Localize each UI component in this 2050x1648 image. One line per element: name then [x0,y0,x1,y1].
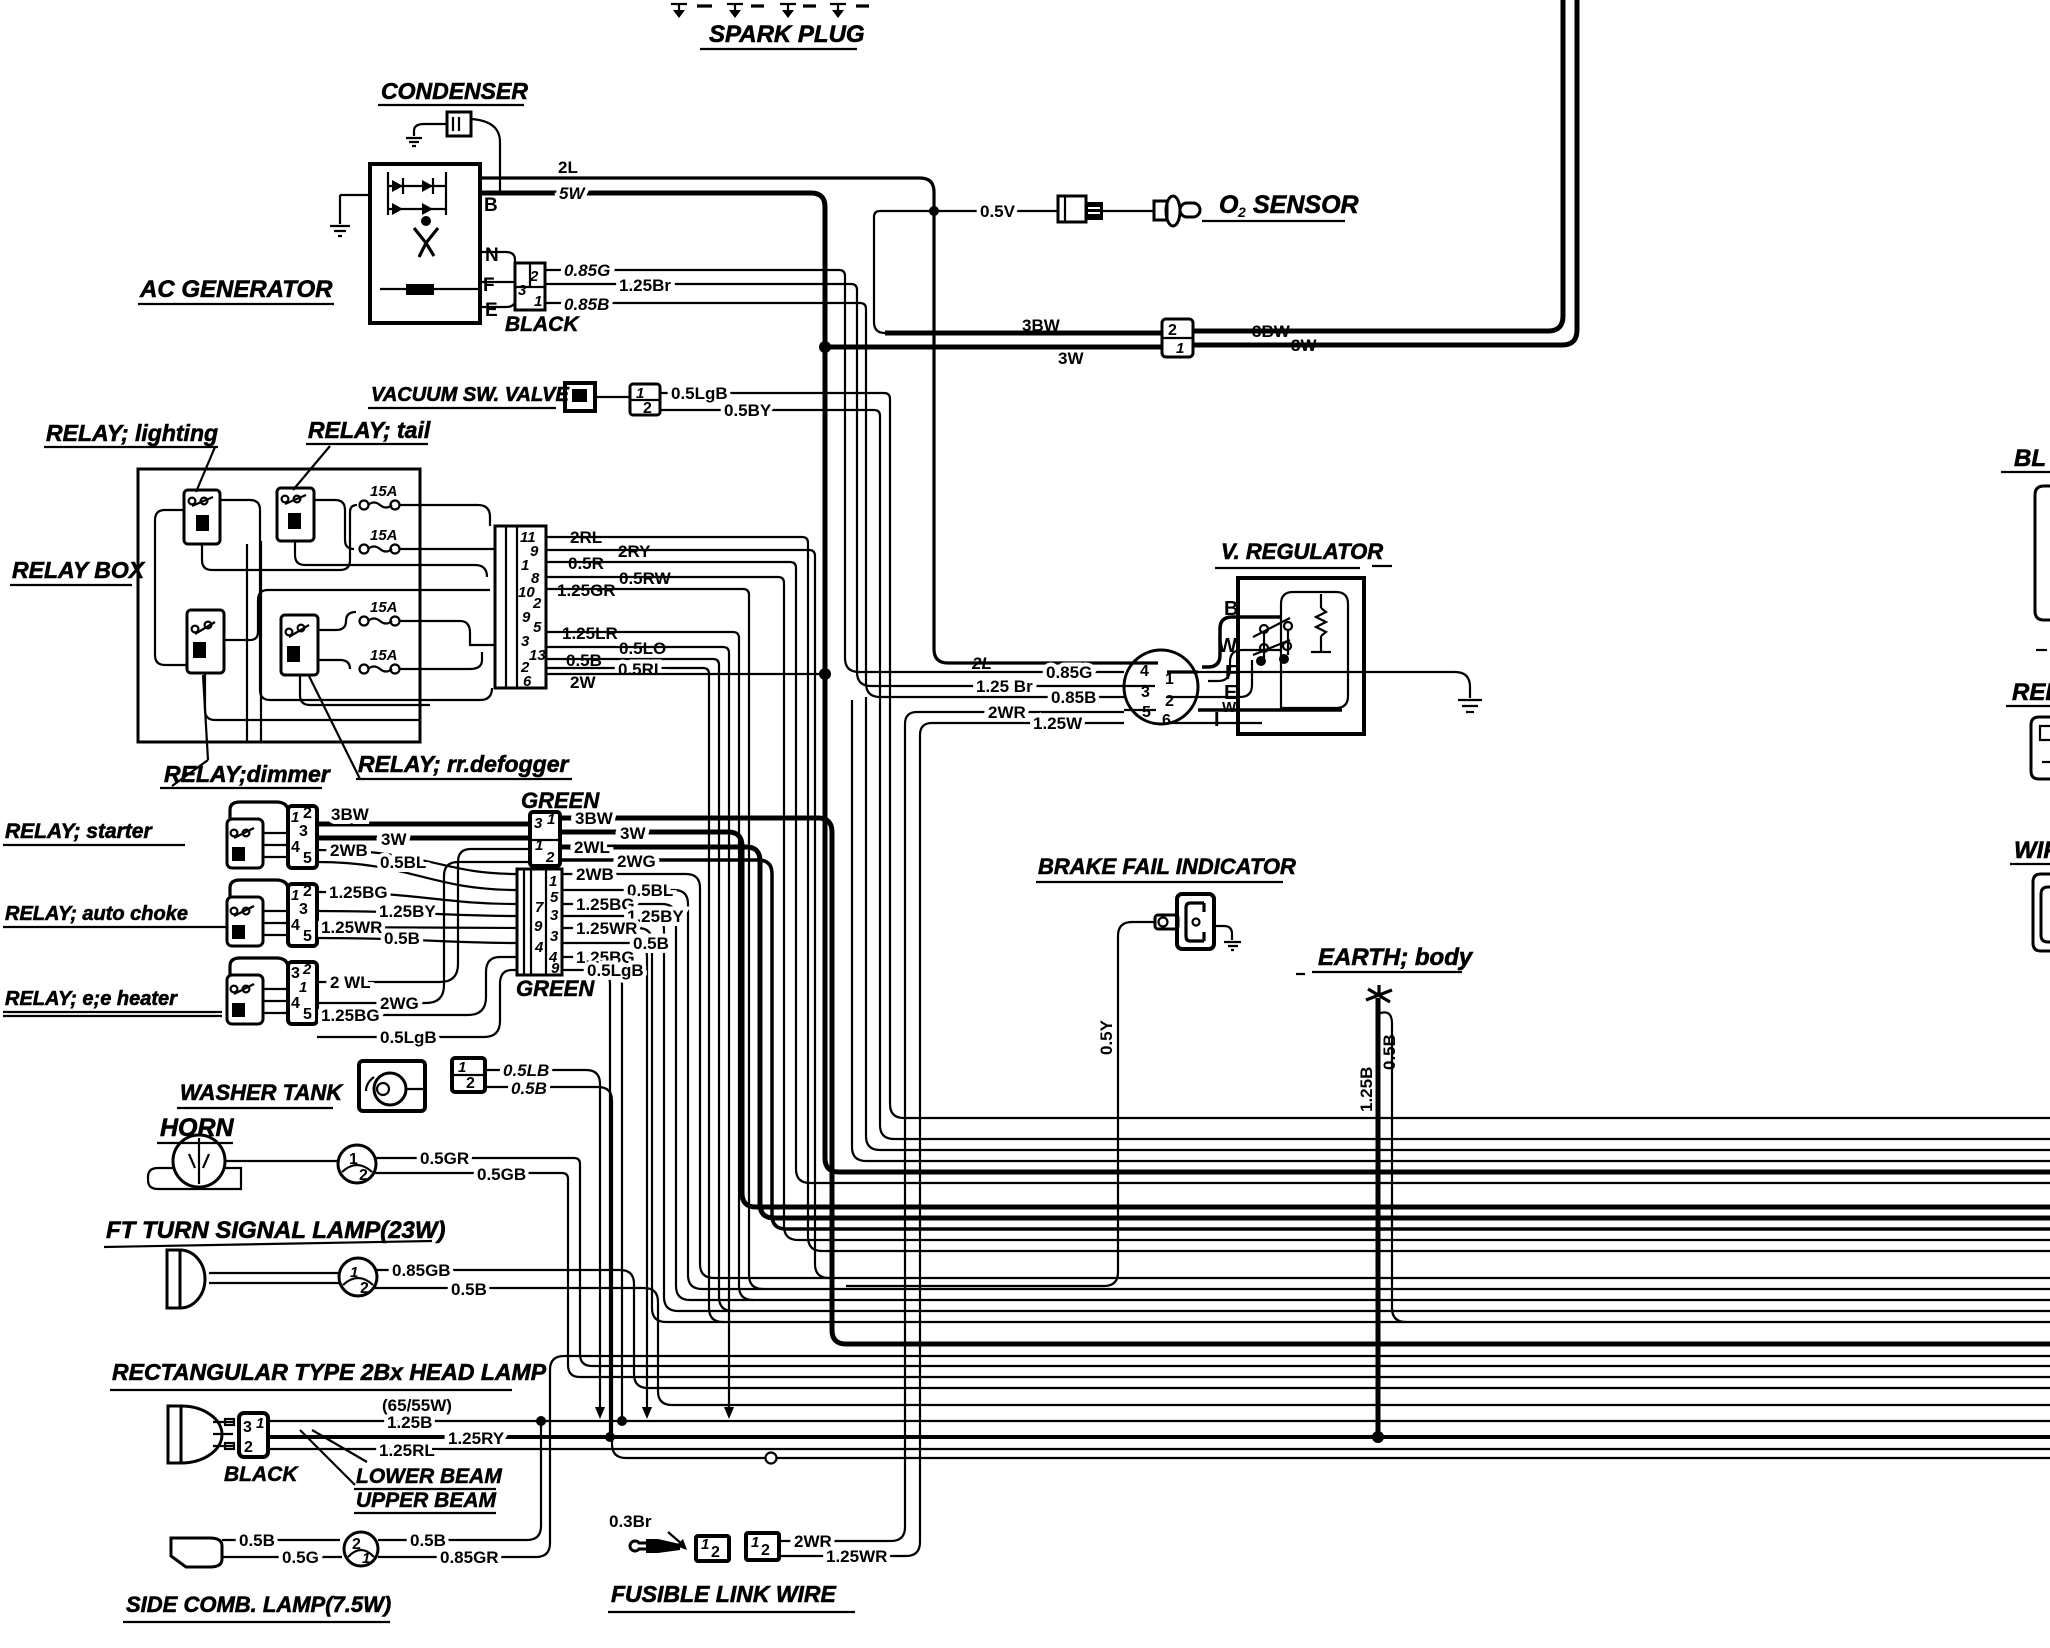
wire I [1196,722,1262,724]
bundle line B 1139 [894,1138,2050,1140]
svg-text:1: 1 [1176,340,1184,357]
svg-text:2: 2 [545,849,555,866]
bundle line R 1356 [564,1355,2050,1357]
svg-text:E: E [485,300,498,321]
bundle line E 1172 thick [839,1170,2050,1175]
wire 0.5LgB GREEN2 right (dot end) [562,970,610,1437]
svg-text:0.5B: 0.5B [633,934,669,953]
svg-text:RELAY; lighting: RELAY; lighting [46,420,218,446]
svg-text:0.5LgB: 0.5LgB [587,961,644,980]
wire 1.25WR choke->GREEN2 [317,927,517,928]
svg-text:2: 2 [360,1280,369,1297]
svg-text:LOWER BEAM: LOWER BEAM [356,1465,502,1488]
wire 3BW GREEN1 right (thick) to mid vertical [560,818,846,1344]
wire 3BW right (thick) to top-right vertical [1193,0,1563,331]
svg-text:O: O [1219,191,1239,219]
svg-text:I: I [1214,709,1220,731]
svg-text:1: 1 [256,1415,264,1432]
vacuum switch valve [565,383,595,411]
vertical x852 to bundle D [852,700,866,1161]
svg-text:9: 9 [534,918,543,935]
wire 2RY [546,550,815,556]
svg-text:2: 2 [359,1167,368,1184]
wire 2WL GREEN1 right (thick) [560,847,774,1218]
spark plug row [671,4,869,18]
bundle line T 1377 [580,1376,2050,1378]
wire 0.5GR [376,1158,592,1366]
svg-text:15A: 15A [370,647,398,664]
wire 3W starter->GREEN (thick) [317,836,530,841]
bundle line C 1150 [880,1149,2050,1151]
svg-text:0.5LB: 0.5LB [503,1061,549,1080]
svg-text:2WG: 2WG [380,994,419,1013]
heater connector [288,962,317,1024]
relay box internal wires [220,500,492,700]
svg-text:RECTANGULAR TYPE 2Bx HEAD LAMP: RECTANGULAR TYPE 2Bx HEAD LAMP [112,1359,547,1385]
vreg resistor [1316,608,1326,636]
svg-text:RELAY; rr.defogger: RELAY; rr.defogger [358,751,569,777]
svg-text:UPPER BEAM: UPPER BEAM [356,1489,497,1512]
svg-text:CONDENSER: CONDENSER [381,78,528,104]
wire 0.5B [546,659,719,665]
svg-text:N: N [485,245,499,266]
turn signal lamp symbol [167,1250,180,1308]
wire B (thick S-curve into box) [1202,617,1281,667]
svg-text:3: 3 [243,1419,252,1436]
bundle line F 1183 [810,1182,2050,1184]
wire 2W with junction dot on thick vertical [546,673,822,675]
condenser C [447,112,471,136]
wire 0.5B choke->GREEN2 [317,938,517,943]
beam leader lines [300,1430,367,1485]
wire 0.5B washer [485,1087,626,1458]
wire 2RL [546,537,808,543]
svg-text:5: 5 [303,928,312,945]
svg-text:0.5LgB: 0.5LgB [380,1028,437,1047]
heater hook wire [230,958,288,975]
svg-text:1: 1 [549,873,557,890]
svg-text:RELAY; e;e heater: RELAY; e;e heater [5,988,178,1010]
head lamp connector [239,1413,268,1457]
relay lighting [184,490,220,544]
svg-text:HORN: HORN [160,1114,235,1142]
svg-text:0.85G: 0.85G [1046,663,1092,682]
svg-text:1.25B: 1.25B [1357,1067,1376,1112]
starter connector [288,806,317,868]
wire 3BW left (thick) [885,331,1162,336]
svg-text:0.5B: 0.5B [451,1280,487,1299]
svg-text:VACUUM SW. VALVE: VACUUM SW. VALVE [371,384,569,406]
relay vertical 0.5RL x709 to P [709,674,723,1322]
bundle line G 1207 thick [756,1205,2050,1210]
svg-text:F: F [483,275,495,296]
svg-text:1: 1 [349,1151,358,1168]
svg-text:4: 4 [1140,663,1149,680]
svg-text:2: 2 [761,1542,770,1559]
svg-text:4: 4 [291,839,300,856]
vreg armature lines [1253,618,1290,655]
relay box outline [138,469,420,742]
wire 0.85GB (arrow end) [377,1270,648,1388]
wire w thick [1198,708,1342,712]
wire 0.5Y down to bundle [846,922,1155,1286]
svg-text:15A: 15A [370,527,398,544]
svg-text:0.5RW: 0.5RW [619,569,672,588]
svg-text:0.5V: 0.5V [980,202,1016,221]
svg-text:4: 4 [291,995,300,1012]
svg-text:3: 3 [299,901,308,918]
svg-text:1.25 Br: 1.25 Br [976,677,1033,696]
wire 2WB GREEN2 right [562,874,714,1278]
svg-text:2L: 2L [971,654,992,673]
bundle line M 1289 [702,1288,2050,1290]
svg-text:BLACK: BLACK [224,1463,299,1486]
svg-text:5: 5 [550,889,559,906]
wiper box (clipped) [2033,874,2050,951]
generator internals: diodes [392,180,433,215]
wire 3BW starter->GREEN (thick) [317,822,530,827]
wire 0.5RW [546,577,784,583]
AC gen connector [515,263,545,310]
svg-text:1.25BG: 1.25BG [329,883,388,902]
svg-text:1.25B: 1.25B [387,1413,432,1432]
svg-text:4: 4 [291,917,300,934]
starter hook wire [230,802,288,819]
bundle line A 1118 [904,1117,2050,1119]
wire right to ground [1214,926,1232,940]
svg-text:RELAY BOX: RELAY BOX [12,557,146,583]
svg-text:1.25LR: 1.25LR [562,624,618,643]
svg-text:2WL: 2WL [574,838,610,857]
relay e;e heater [227,975,263,1024]
svg-text:2: 2 [1165,693,1174,710]
vertical 0.85G x845 [844,276,846,658]
thick vertical 5W x825 [825,207,839,1172]
svg-text:1: 1 [362,1550,370,1567]
incoming wire 0.85B [866,683,1124,697]
svg-text:WIP: WIP [2014,837,2050,864]
horn symbol [173,1135,225,1187]
brake fail indicator body [1177,894,1214,949]
earth cross symbol [1366,985,1392,1002]
head lamp symbol [168,1406,181,1463]
svg-text:0.85B: 0.85B [1051,688,1096,707]
svg-text:0.5B: 0.5B [511,1079,547,1098]
svg-text:9: 9 [522,609,531,626]
svg-text:0.85GR: 0.85GR [440,1548,499,1567]
svg-text:2RL: 2RL [570,528,602,547]
svg-text:4: 4 [534,939,544,956]
svg-text:1.25WR: 1.25WR [576,919,637,938]
svg-text:0.5LgB: 0.5LgB [671,384,728,403]
svg-text:2W: 2W [570,673,596,692]
wire 1.25BY choke->GREEN2 [317,911,517,916]
svg-text:2: 2 [1168,322,1177,339]
vertical 2L x934 [932,192,935,649]
incoming wire 0.85G [845,658,1124,672]
wire 0.5LB (arrow end) [485,1070,600,1409]
svg-text:5: 5 [1142,704,1151,721]
incoming wire 2WR (from fusible link vertical) [905,712,1124,724]
choke hook wire [230,880,288,897]
connector circle 6pin [1124,650,1198,724]
GREEN connector 1 [530,812,560,866]
wire 0.5BL GREEN2 right [562,890,702,1289]
svg-text:5W: 5W [559,184,586,203]
svg-text:3: 3 [518,282,527,299]
wire 0.5LgB [660,393,890,399]
wire E short [1198,660,1252,697]
wire F long to ground [1198,672,1470,698]
svg-text:9: 9 [551,960,560,977]
vertical gap fills fusible [905,724,920,749]
wire 0.5B turn [375,1288,672,1405]
svg-text:0.5R: 0.5R [568,554,604,573]
svg-text:2: 2 [532,595,542,612]
svg-text:2: 2 [643,400,652,417]
wire 3W GREEN1 right (thick) [560,832,756,1207]
vreg inner frame [1281,592,1348,708]
svg-text:RELAY; auto choke: RELAY; auto choke [5,903,188,925]
svg-text:5: 5 [303,850,312,867]
svg-text:1.25BY: 1.25BY [379,902,436,921]
bundle line Z 1458 with open circle [626,1457,2050,1459]
washer connector [452,1058,485,1092]
bundle line D 1161 [866,1160,2050,1162]
fusible connector 2 [746,1533,779,1560]
bundle line L 1278 [714,1277,2050,1279]
wire 0.5B side left [222,1539,340,1541]
svg-text:3BW: 3BW [331,805,370,824]
svg-text:2: 2 [244,1439,253,1456]
svg-text:0.5B: 0.5B [1380,1034,1399,1070]
wire 1.25B (bundle line W) [268,1420,2050,1422]
svg-text:7: 7 [535,899,544,916]
side lamp connector [344,1532,378,1566]
svg-text:0.5BL: 0.5BL [380,853,426,872]
svg-text:1.25WR: 1.25WR [321,918,382,937]
wire E to connector [480,295,515,307]
svg-text:SPARK PLUG: SPARK PLUG [709,21,865,48]
wire 0.5B GREEN2 right (arrow end) [562,943,647,1409]
svg-text:0.5Y: 0.5Y [1097,1019,1116,1055]
svg-text:W: W [1222,699,1237,716]
wire 0.5R [546,562,796,568]
V regulator box [1238,578,1364,734]
bundle line I 1229 [786,1227,2050,1231]
svg-text:1.25GR: 1.25GR [557,581,616,600]
svg-text:1.25BG: 1.25BG [321,1006,380,1025]
svg-text:FUSIBLE LINK WIRE: FUSIBLE LINK WIRE [611,1581,837,1607]
svg-text:6: 6 [1162,712,1171,729]
bundle line O 1311 [678,1310,2050,1312]
leader dimmer [172,675,208,786]
svg-text:3: 3 [550,928,559,945]
svg-text:1.25Br: 1.25Br [619,276,671,295]
svg-text:1: 1 [701,1536,709,1553]
choke connector [288,884,317,946]
horn wire to connector [225,1160,338,1162]
svg-text:1: 1 [350,1264,358,1281]
relay vertical 0.5LO x729 arrow [728,653,730,1409]
GREEN connector 2 [517,869,562,975]
wire F to connector [480,281,515,283]
svg-text:13: 13 [529,647,546,664]
svg-text:GREEN: GREEN [516,976,595,1001]
svg-text:3: 3 [299,823,308,840]
svg-text:2: 2 [303,883,312,900]
wire 2WL heater->GREEN1 [317,849,530,982]
svg-text:V. REGULATOR: V. REGULATOR [1221,539,1383,564]
svg-text:EARTH; body: EARTH; body [1318,944,1474,971]
wire 0.5B side right (up to dot on 1.25B) [378,1421,541,1540]
svg-text:15A: 15A [370,483,398,500]
blower box (clipped) [2035,486,2050,620]
svg-text:1: 1 [547,811,555,828]
wire 0.5LO [546,647,729,653]
svg-text:BL: BL [2014,445,2046,472]
wire 1.25LR [546,632,739,638]
relay vertical 0.5RW x784 to J [784,583,798,1240]
svg-text:RELAY; starter: RELAY; starter [5,820,153,843]
incoming wire 1.25Br [857,672,1124,686]
svg-text:2L: 2L [558,158,578,177]
svg-text:1: 1 [299,979,307,996]
svg-text:2WB: 2WB [330,841,368,860]
vacuum valve connector [630,384,660,415]
ground (generator) [340,195,370,224]
leader lighting [196,447,215,492]
wire 2WG heater->GREEN1 [317,862,530,1003]
pin stub lines through circle [1124,663,1198,672]
relay dimmer [187,610,224,673]
svg-text:5: 5 [533,619,542,636]
relay box output connector [495,526,546,688]
wire 0.5RL [546,668,709,674]
brake fail left connector [1155,915,1178,929]
vertical 0.85B x866 with branch to bundle C [866,309,880,1150]
tick [2036,649,2047,651]
svg-text:3W: 3W [1058,349,1084,368]
wire 0.85B [545,303,866,309]
vertical 0.5LgB x890 to bundle A [890,399,904,1118]
relay rr.defogger [281,615,318,675]
wire 3W right (thick) to top-right vertical [1193,0,1577,345]
bundle line J 1240 [798,1239,2050,1241]
AC generator box [370,164,480,323]
svg-text:2: 2 [303,805,312,822]
bundle line H 1218 thick [774,1216,2050,1221]
svg-text:1: 1 [521,557,529,574]
svg-text:2: 2 [1237,204,1246,220]
svg-text:0.85GB: 0.85GB [392,1261,451,1280]
wire 0.5G side left [222,1556,342,1558]
svg-text:0.85G: 0.85G [564,261,610,280]
svg-text:9: 9 [530,543,539,560]
generator internals: field coil [406,284,434,295]
svg-text:1.25WR: 1.25WR [826,1547,887,1566]
wire condenser left to ground [414,124,447,136]
svg-text:AC GENERATOR: AC GENERATOR [139,276,333,303]
svg-text:1: 1 [534,293,542,310]
wire 3W left (thick) with junction on 5W vertical [825,345,1162,350]
vertical 0.5BY x880 to bundle B [880,416,894,1139]
horn connector [338,1145,376,1183]
wire 2WG GREEN1 right [560,860,786,1229]
incoming wire 2L [934,649,1124,663]
earth wire 1.25B thick vertical [1376,998,1381,1437]
svg-text:3: 3 [550,907,559,924]
generator internals: stator [414,228,438,257]
svg-text:2RY: 2RY [618,542,651,561]
wire 1.25WR fusible (up) [779,749,920,1556]
svg-text:3BW: 3BW [1252,322,1291,341]
svg-text:2: 2 [302,961,312,978]
svg-text:3BW: 3BW [1022,316,1061,335]
wire 1.25GR [546,589,749,595]
svg-text:RELAY; tail: RELAY; tail [308,417,431,443]
svg-text:REL: REL [2012,679,2050,706]
svg-text:0.5B: 0.5B [384,929,420,948]
svg-text:15A: 15A [370,599,398,616]
leader tail [293,446,330,490]
svg-text:2WB: 2WB [576,865,614,884]
wire 1.25BG GREEN2 right [562,904,690,1300]
incoming wire 1.25W (from fusible link vertical) [920,723,1124,735]
ground (brake fail) [1224,942,1241,950]
wire 1.25RL (bundle line Y) [268,1448,2050,1450]
bundle line S 1366 [592,1365,2050,1367]
wire 2WB starter->GREEN2 [317,850,517,874]
svg-text:2: 2 [352,1536,361,1553]
svg-text:WASHER TANK: WASHER TANK [180,1080,344,1105]
wire N to connector [480,252,515,265]
earth wire 0.5B branch [1378,1012,1406,1322]
svg-text:2: 2 [711,1544,720,1561]
svg-text:1: 1 [458,1059,466,1076]
relay vertical 2RY x815 to L [815,556,829,1278]
svg-text:2: 2 [466,1075,475,1092]
O2 sensor symbol [1154,201,1167,220]
svg-text:2: 2 [529,268,539,285]
washer tank box [359,1061,425,1111]
wire 1.25BG(2) GREEN2 right (dot end) [562,957,622,1421]
wire condenser right down to B [471,119,500,191]
resister box (clipped) [2031,717,2050,779]
svg-text:0.5BY: 0.5BY [724,401,772,420]
svg-text:2WR: 2WR [988,703,1026,722]
svg-text:3BW: 3BW [575,809,614,828]
svg-text:0.5LO: 0.5LO [619,639,666,658]
relay vertical 0.5R x796 to F [796,568,810,1183]
wire 0.5LgB heater->GREEN2 [317,970,517,1037]
bundle line U 1388 [648,1387,2050,1389]
wire W S-curve [1208,650,1280,681]
svg-text:SIDE COMB. LAMP(7.5W): SIDE COMB. LAMP(7.5W) [126,1592,391,1617]
svg-text:1: 1 [751,1534,759,1551]
leader defogger [309,676,360,779]
svg-text:0.5GR: 0.5GR [420,1149,469,1168]
relay vertical 2RL x808 to K [808,543,822,1251]
relay starter [227,819,263,868]
wire 0.5GB [374,1173,580,1377]
svg-text:1.25W: 1.25W [1033,714,1083,733]
wire 1.25BG heater->GREEN2 [317,957,517,1015]
turn signal connector [339,1258,377,1296]
wire 1.25Br [545,284,857,290]
svg-text:3W: 3W [381,830,407,849]
svg-text:2WG: 2WG [617,852,656,871]
